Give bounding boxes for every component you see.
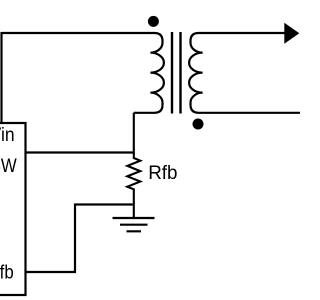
svg-text:SW: SW — [0, 156, 17, 177]
svg-text:Vfb: Vfb — [0, 263, 14, 284]
svg-text:Rfb: Rfb — [148, 162, 177, 184]
svg-text:Vin: Vin — [0, 125, 15, 146]
